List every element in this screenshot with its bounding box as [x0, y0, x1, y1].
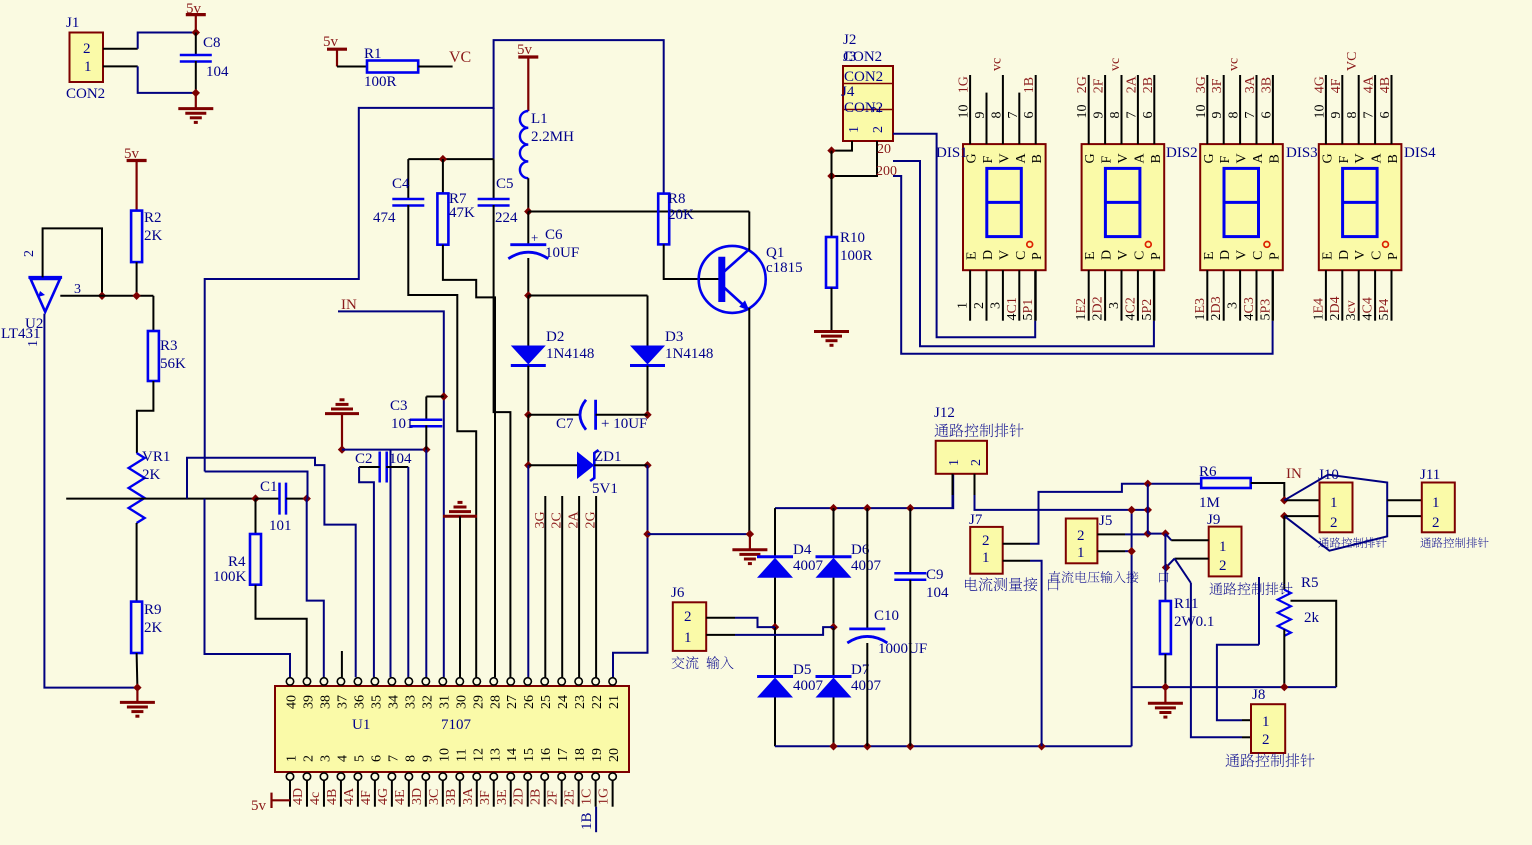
svg-text:7: 7: [386, 755, 401, 762]
pin 3 circle: [320, 773, 327, 780]
svg-text:2: 2: [1432, 515, 1440, 531]
svg-text:9: 9: [1092, 112, 1107, 119]
svg-text:J2: J2: [843, 32, 856, 48]
wire DIS bottom lead: [1325, 270, 1327, 321]
svg-text:2: 2: [684, 609, 692, 625]
svg-text:4G: 4G: [376, 788, 391, 805]
pin 4 circle: [337, 773, 344, 780]
wire DIS bottom lead: [1121, 270, 1123, 321]
connector J10 body: [1320, 483, 1353, 533]
svg-text:R8: R8: [668, 191, 686, 207]
ground under R11: [1164, 687, 1166, 703]
svg-text:8: 8: [403, 755, 418, 762]
svg-text:1E2: 1E2: [1074, 298, 1089, 321]
svg-text:F: F: [981, 156, 996, 164]
wire pin 1 stub: [289, 780, 291, 806]
svg-text:2F: 2F: [546, 790, 561, 805]
capacitor C8: [180, 55, 212, 62]
junction R9/ground: [133, 683, 141, 691]
wire pin 12 stub: [476, 780, 478, 806]
svg-text:G: G: [1320, 153, 1335, 163]
svg-text:9: 9: [1329, 112, 1344, 119]
svg-text:F: F: [1100, 156, 1115, 164]
wire pin 19 stub: [595, 780, 597, 806]
wire pin 5 stub: [357, 780, 359, 806]
svg-text:27: 27: [505, 695, 520, 709]
svg-text:ZD1: ZD1: [594, 449, 622, 465]
wire DIS bottom lead: [1341, 270, 1343, 321]
resistor R1: [367, 61, 418, 73]
ground symbol: [178, 109, 213, 123]
svg-text:1G: 1G: [597, 788, 612, 805]
svg-text:5P3: 5P3: [1258, 299, 1273, 321]
svg-text:101: 101: [269, 518, 292, 534]
wire D2 bottom lead: [527, 366, 529, 415]
wire C7 left lead: [528, 414, 579, 416]
pin 40 circle: [286, 678, 293, 685]
svg-text:2B: 2B: [529, 789, 544, 805]
svg-text:18: 18: [573, 748, 588, 762]
wire J9.2 lead: [1175, 558, 1209, 560]
svg-text:D: D: [1337, 250, 1352, 260]
transistor U2 LT431: [28, 277, 62, 311]
svg-text:31: 31: [437, 695, 452, 709]
svg-text:G: G: [1083, 153, 1098, 163]
wire osc rail: [408, 158, 493, 160]
wire gnd to pin30: [459, 516, 461, 677]
wire R9 bottom: [136, 653, 139, 688]
wire pin 9 stub: [425, 780, 427, 806]
junction U2.2/R2: [98, 292, 106, 300]
svg-text:4B: 4B: [1378, 77, 1393, 93]
wire DIS top lead: [986, 93, 988, 145]
junction L1/C6: [524, 207, 532, 215]
svg-text:36: 36: [352, 695, 367, 709]
wire C3 feed: [426, 396, 444, 398]
pin 16 circle: [541, 773, 548, 780]
wire D2 top lead: [527, 296, 529, 346]
capacitor C10: [849, 628, 885, 631]
resistor R8: [658, 194, 669, 245]
junction ZD1 right: [643, 461, 651, 469]
svg-text:2F: 2F: [1092, 78, 1107, 93]
wire Q1 collector: [748, 212, 750, 251]
wire U2 pin2 loop: [43, 228, 102, 295]
pin 18 circle: [575, 773, 582, 780]
pin 20 circle: [609, 773, 616, 780]
wire C5 top lead: [493, 159, 495, 199]
junction C7 left: [524, 411, 532, 419]
wire R3 to VR1: [137, 381, 154, 453]
svg-text:V: V: [997, 250, 1012, 260]
wire C6 bottom lead: [527, 258, 529, 296]
pin 17 circle: [558, 773, 565, 780]
svg-text:E: E: [1202, 251, 1217, 260]
junction emitter line: [643, 530, 651, 538]
wire R6 to IN node: [1251, 483, 1285, 500]
svg-text:2K: 2K: [142, 467, 161, 483]
svg-text:1: 1: [847, 126, 862, 133]
svg-text:D: D: [1100, 250, 1115, 260]
svg-text:V: V: [1353, 153, 1368, 163]
label 通路控制排针 J11: [1420, 537, 1488, 547]
svg-text:C: C: [1370, 251, 1385, 260]
wire DIS top lead: [1272, 75, 1274, 144]
svg-text:3B: 3B: [444, 789, 459, 805]
wire DIS bottom lead: [1358, 270, 1360, 321]
label 通路控制排针 J8: [1225, 753, 1314, 767]
wire J9.1 diag: [1165, 534, 1171, 541]
junction R5: [1280, 683, 1288, 691]
wire D6 top lead: [833, 508, 835, 557]
pin 5 circle: [354, 773, 361, 780]
resistor R4: [250, 534, 261, 585]
svg-text:G: G: [1202, 153, 1217, 163]
wire D5 bottom lead: [774, 697, 776, 746]
junction D6 top: [829, 504, 837, 512]
wire R8 to Q1 base: [664, 244, 721, 279]
pin 1 circle: [286, 773, 293, 780]
wire R1 to VC: [418, 66, 452, 68]
svg-text:1E3: 1E3: [1193, 298, 1208, 321]
svg-text:VR1: VR1: [142, 449, 170, 465]
DIS2 dp: [1145, 242, 1151, 248]
svg-text:4D: 4D: [291, 788, 306, 805]
svg-text:8: 8: [989, 112, 1004, 119]
wire to U1 pin32: [425, 450, 427, 678]
svg-text:C3: C3: [390, 398, 408, 414]
svg-text:34: 34: [386, 695, 401, 709]
svg-text:+ 10UF: + 10UF: [601, 416, 647, 432]
wire J5.1: [1125, 550, 1132, 552]
inductor L1: [520, 111, 528, 178]
svg-text:2G: 2G: [1075, 76, 1090, 93]
svg-text:D3: D3: [665, 329, 683, 345]
wire IN to U1 pin31: [338, 311, 444, 677]
svg-text:F: F: [1218, 156, 1233, 164]
junction J9.2: [1162, 563, 1170, 571]
svg-text:2: 2: [972, 302, 987, 309]
svg-text:C: C: [1014, 251, 1029, 260]
junction C7 right: [643, 411, 651, 419]
label 通路控制排针 J9: [1209, 582, 1292, 595]
wire DIS bottom lead: [1088, 270, 1090, 321]
svg-text:19: 19: [590, 748, 605, 762]
junction C10 top: [863, 504, 871, 512]
pin 39 circle: [303, 678, 310, 685]
wire J2 pin2: [832, 141, 878, 176]
svg-text:4007: 4007: [793, 558, 824, 574]
wire DIS1 P lead: [1034, 270, 1036, 321]
pin 30 circle: [456, 678, 463, 685]
wire C1 left lead: [256, 498, 280, 500]
pin 35 circle: [371, 678, 378, 685]
wire 1B: [595, 807, 597, 833]
svg-text:1: 1: [26, 340, 41, 347]
wire R10 bottom: [831, 288, 833, 332]
wire C4 top lead: [407, 159, 409, 199]
svg-text:2: 2: [1219, 558, 1227, 574]
svg-text:C8: C8: [203, 35, 221, 51]
wire pin37 stub: [341, 651, 343, 677]
resistor R5: [1278, 590, 1291, 636]
svg-text:P: P: [1149, 252, 1164, 260]
junction: [827, 172, 835, 180]
svg-text:4007: 4007: [851, 558, 882, 574]
wire pin 18 stub: [578, 780, 580, 806]
junction AC2: [829, 623, 837, 631]
wire DIS bottom lead: [1256, 270, 1258, 321]
svg-text:1B: 1B: [579, 812, 595, 830]
svg-text:11: 11: [454, 749, 469, 762]
svg-text:J1: J1: [66, 15, 79, 31]
wire DIS bottom lead: [1104, 270, 1106, 321]
power 5v bar R1: [327, 48, 347, 51]
svg-text:3A: 3A: [461, 787, 476, 805]
wire J8.2 lead: [1242, 736, 1251, 738]
wire DIS bottom lead: [1137, 270, 1139, 321]
ground under C8: [195, 93, 197, 109]
wire mid gnd tie: [1131, 510, 1133, 746]
ground under R10: [814, 332, 849, 346]
junction: [906, 742, 914, 750]
wire R5 loop: [1291, 601, 1337, 687]
svg-text:3C: 3C: [427, 789, 442, 805]
svg-text:100R: 100R: [364, 74, 397, 90]
svg-text:IN: IN: [1286, 466, 1302, 482]
wire DIS top lead: [1104, 75, 1106, 144]
svg-text:D5: D5: [793, 662, 811, 678]
wire J7.2 to R6: [1030, 484, 1201, 544]
connector J12 body: [936, 441, 987, 474]
junction C1 left / R4: [251, 494, 259, 502]
svg-text:4: 4: [335, 755, 350, 762]
resistor R3: [148, 331, 159, 381]
wire pin 3 stub: [323, 780, 325, 806]
svg-text:C1: C1: [260, 479, 278, 495]
wire J6.2 to bridge: [735, 618, 775, 627]
svg-text:2: 2: [1262, 732, 1270, 748]
svg-text:3G: 3G: [533, 511, 548, 528]
wire C10 bottom: [866, 643, 868, 746]
resistor R7: [437, 193, 448, 244]
wire to U1 pin40: [205, 499, 291, 678]
svg-text:8: 8: [1108, 112, 1123, 119]
wire D2 to D3 top: [528, 295, 647, 297]
wire DIS top lead: [1358, 75, 1360, 144]
svg-text:1B: 1B: [1022, 77, 1037, 93]
svg-text:2: 2: [83, 41, 91, 57]
ground symbol: [120, 702, 155, 716]
svg-text:10: 10: [1312, 105, 1327, 119]
svg-text:C2: C2: [355, 451, 373, 467]
wire DIS bottom lead: [1272, 270, 1274, 321]
pin 36 circle: [354, 678, 361, 685]
svg-text:4C3: 4C3: [1242, 297, 1257, 320]
resistor R10: [826, 237, 837, 288]
wire C5 to pin27: [494, 205, 511, 677]
svg-text:1: 1: [684, 630, 692, 646]
wire D5 top lead: [774, 627, 776, 676]
display DIS4 body: [1319, 144, 1402, 270]
wire C2 left lead: [359, 466, 380, 468]
wire J9.2 diag: [1166, 559, 1175, 568]
svg-text:V: V: [1235, 250, 1250, 260]
svg-text:10: 10: [1075, 105, 1090, 119]
svg-text:R11: R11: [1174, 596, 1198, 612]
svg-text:25: 25: [539, 695, 554, 709]
pin 15 circle: [524, 773, 531, 780]
svg-text:20K: 20K: [668, 207, 694, 223]
pin 33 circle: [405, 678, 412, 685]
wire J10.2 lead: [1284, 515, 1319, 517]
svg-text:1: 1: [1432, 495, 1440, 511]
wire loop to C1 junction: [205, 472, 308, 499]
wire C3 bottom net: [342, 449, 426, 451]
pin 10 circle: [439, 773, 446, 780]
wire DIS top lead: [1325, 75, 1327, 144]
svg-text:26: 26: [522, 695, 537, 709]
wire DIS top lead: [1137, 75, 1139, 144]
resistor R6: [1201, 478, 1251, 488]
wire to U1 pin26: [527, 465, 529, 677]
capacitor C1: [280, 483, 287, 515]
wire R11 bottom: [1164, 654, 1166, 687]
wire DIS bottom lead: [1206, 270, 1208, 321]
wire J1 pin2 lead: [103, 48, 138, 50]
junction: [829, 742, 837, 750]
junction emitter/ground: [746, 530, 754, 538]
pin 32 circle: [422, 678, 429, 685]
svg-text:28: 28: [488, 695, 503, 709]
svg-text:5v: 5v: [323, 34, 339, 50]
wire pin 15 stub: [527, 780, 529, 806]
junction: [863, 742, 871, 750]
svg-text:2.2MH: 2.2MH: [531, 129, 574, 145]
svg-text:2A: 2A: [1124, 75, 1139, 93]
DIS4 dp: [1383, 242, 1389, 248]
svg-text:39: 39: [301, 695, 316, 709]
svg-text:6: 6: [1259, 112, 1274, 119]
svg-text:Q1: Q1: [766, 245, 784, 261]
wire J12.2 lead: [974, 474, 976, 495]
svg-text:1: 1: [1219, 539, 1227, 555]
capacitor C9: [894, 573, 926, 580]
wire J10.1 lead: [1284, 499, 1319, 501]
svg-text:8: 8: [1345, 112, 1360, 119]
wire D3 bottom lead: [647, 366, 649, 415]
junction IN/C3: [440, 392, 448, 400]
capacitor C5: [478, 199, 510, 206]
DIS3 dp: [1264, 242, 1270, 248]
pin 28 circle: [490, 678, 497, 685]
svg-text:P: P: [1386, 252, 1401, 260]
pin 11 circle: [456, 773, 463, 780]
wire vertical tie: [1147, 484, 1149, 534]
wire pin 17 stub: [561, 780, 563, 806]
DIS3 digit: [1224, 168, 1259, 236]
wire J6.2 lead: [706, 617, 735, 619]
DIS2 digit: [1105, 168, 1140, 236]
svg-text:B: B: [1030, 154, 1045, 163]
diode D6: [816, 555, 852, 558]
connector J7 body: [970, 527, 1003, 574]
svg-text:9: 9: [1210, 112, 1225, 119]
wire L1 to Q1 collector: [528, 211, 749, 213]
svg-text:C5: C5: [496, 176, 514, 192]
wire DIS top lead: [1153, 75, 1155, 144]
wire pin 11 stub: [459, 780, 461, 806]
svg-text:2D2: 2D2: [1091, 296, 1106, 320]
junction: [827, 146, 835, 154]
junction R11: [1161, 683, 1169, 691]
wire J8.1 net upper: [1258, 577, 1260, 645]
wire C7 right lead: [596, 414, 648, 416]
wire stub 3G: [544, 496, 546, 677]
pin 9 circle: [422, 773, 429, 780]
svg-text:3: 3: [1226, 302, 1241, 309]
wire U2 pin1 rail: [44, 314, 137, 688]
wire bottom rail: [775, 745, 1132, 747]
resistor R2: [131, 211, 142, 263]
svg-text:5v: 5v: [517, 42, 533, 58]
resistor R11: [1160, 601, 1171, 654]
svg-text:8: 8: [1227, 112, 1242, 119]
wire J6.1 to bridge: [735, 627, 834, 635]
wire R4 to U1 pin39: [256, 585, 307, 678]
wire bridge top rail: [775, 474, 953, 508]
svg-text:D: D: [1218, 250, 1233, 260]
svg-text:30: 30: [454, 695, 469, 709]
svg-text:1: 1: [84, 59, 92, 75]
svg-text:14: 14: [505, 748, 520, 762]
wire D4 top lead: [774, 508, 776, 557]
svg-text:V: V: [997, 153, 1012, 163]
svg-text:4E: 4E: [393, 789, 408, 805]
wire R10 top: [831, 151, 833, 237]
wire C6 top lead: [527, 212, 529, 245]
svg-text:E: E: [965, 251, 980, 260]
svg-text:J9: J9: [1207, 512, 1220, 528]
wire bus DIS2.P: [893, 161, 1154, 346]
svg-text:1C: 1C: [580, 789, 595, 805]
svg-text:3: 3: [1107, 302, 1122, 309]
diode D2: [511, 346, 546, 365]
svg-text:CON2: CON2: [844, 69, 883, 85]
svg-text:2: 2: [982, 533, 990, 549]
svg-text:4C4: 4C4: [1361, 297, 1376, 320]
label 电流测量接口: [965, 577, 1059, 591]
svg-text:2E: 2E: [563, 789, 578, 805]
svg-text:4007: 4007: [851, 678, 882, 694]
svg-text:P: P: [1030, 252, 1045, 260]
junction R6 net: [1144, 480, 1152, 488]
wire J12.1: [952, 495, 954, 508]
svg-text:32: 32: [420, 695, 435, 709]
svg-text:3F: 3F: [1210, 78, 1225, 93]
wire pin 8 stub: [408, 780, 410, 806]
capacitor C6: [510, 243, 546, 246]
diode D3: [630, 346, 665, 365]
svg-text:104: 104: [206, 64, 229, 80]
svg-text:7107: 7107: [441, 717, 472, 733]
svg-text:+: +: [531, 230, 538, 245]
pin 2 circle: [303, 773, 310, 780]
wire DIS bottom lead: [1239, 270, 1241, 321]
wire J12.2 to net: [975, 495, 1148, 510]
divider: [843, 84, 893, 110]
wire J11.2 lead: [1387, 515, 1422, 517]
